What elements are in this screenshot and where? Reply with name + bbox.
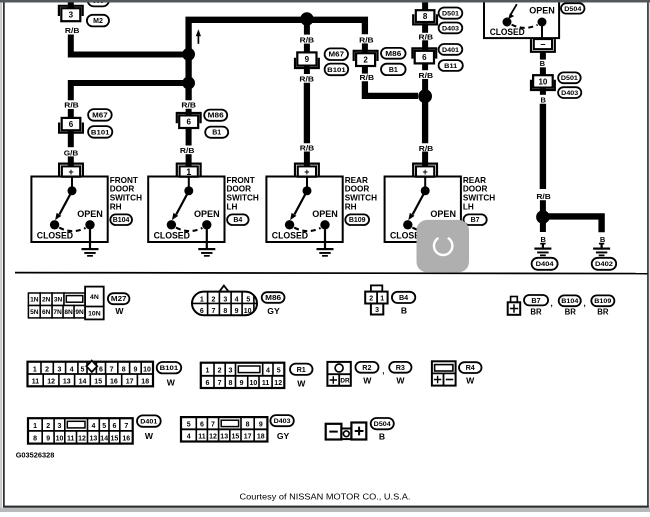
junction dot B2 (R/B bus): [182, 77, 195, 90]
switch 2 CLOSED contact dot: [167, 220, 176, 229]
svg-text:13: 13: [63, 379, 71, 386]
svg-text:−: −: [540, 40, 545, 50]
svg-text:2N: 2N: [42, 297, 51, 304]
wire: col-E stub above connector 8: [422, 2, 428, 10]
pinout oval R2: [355, 362, 378, 373]
pinout oval D401: [137, 415, 161, 426]
svg-text:6: 6: [112, 423, 116, 430]
ground termination D404: [534, 244, 551, 256]
wire: col-B connector to R/B label: [186, 128, 192, 146]
svg-text:10: 10: [143, 366, 151, 373]
door switch box 1: FRONT DOOR SWITCH RH: [31, 177, 107, 243]
svg-text:R/B: R/B: [181, 100, 196, 109]
svg-text:4: 4: [235, 296, 239, 303]
svg-text:D403: D403: [442, 25, 459, 32]
wire: col-F long drop to R/B label: [540, 104, 546, 189]
page frame: left border line: [3, 3, 5, 508]
svg-text:9: 9: [133, 366, 137, 373]
svg-text:14: 14: [79, 379, 87, 386]
svg-text:8: 8: [246, 422, 250, 429]
svg-text:R/B: R/B: [299, 75, 314, 84]
svg-text:17: 17: [126, 379, 134, 386]
pinout oval D403: [270, 415, 293, 426]
svg-text:5: 5: [80, 366, 84, 373]
svg-text:M86: M86: [208, 113, 224, 120]
svg-text:Courtesy of NISSAN MOTOR CO.,: Courtesy of NISSAN MOTOR CO., U.S.A.: [240, 492, 411, 502]
connector oval D501 (col E): [439, 8, 463, 19]
switch 1 CLOSED contact dot: [50, 220, 59, 229]
svg-text:13: 13: [220, 434, 228, 441]
switch 1 top contact feed: [71, 177, 73, 191]
back door switch box (top, cut off): [484, 0, 559, 38]
svg-text:CLOSED: CLOSED: [272, 231, 309, 241]
svg-text:15: 15: [111, 436, 119, 443]
back door switch OPEN contact lead: [541, 26, 543, 38]
svg-text:OPEN: OPEN: [312, 209, 338, 219]
svg-text:D504: D504: [374, 421, 391, 428]
switch 2 OPEN contact dot: [202, 220, 211, 229]
section separator line: [15, 273, 648, 274]
svg-text:M2: M2: [93, 18, 103, 25]
svg-text:4N: 4N: [90, 294, 99, 301]
svg-text:OPEN: OPEN: [194, 209, 220, 219]
svg-text:8: 8: [33, 436, 37, 443]
switch 4 connector oval B7: [464, 214, 487, 225]
svg-text:CLOSED: CLOSED: [490, 27, 525, 37]
svg-text:3: 3: [69, 11, 74, 20]
svg-text:D402: D402: [595, 261, 613, 268]
switch 4 common contact dot: [421, 186, 430, 195]
svg-text:9: 9: [259, 422, 263, 429]
svg-text:CLOSED: CLOSED: [37, 231, 74, 241]
wire: col-F B label to connector 10: [540, 67, 546, 75]
svg-text:B101: B101: [91, 129, 110, 136]
wire: col-A G/B label to terminal +: [68, 156, 74, 166]
svg-text:14: 14: [100, 436, 108, 443]
svg-text:R/B: R/B: [536, 192, 551, 201]
svg-text:B: B: [540, 59, 546, 68]
pinout connector D504 grid: [326, 423, 367, 440]
wire: col-E connector 6 to R/B: [422, 64, 428, 70]
svg-text:W: W: [363, 376, 372, 386]
switch 1 ground: [82, 229, 99, 257]
page frame: bottom border line: [3, 506, 649, 508]
svg-text:9: 9: [235, 308, 239, 315]
svg-text:D404: D404: [536, 261, 554, 268]
svg-text:1: 1: [33, 366, 37, 373]
svg-text:BR: BR: [530, 308, 542, 317]
svg-text:4: 4: [187, 434, 191, 441]
switch 4 ground: [435, 229, 452, 257]
pinout connector B4 grid: [365, 285, 387, 314]
wire: right branch B label to ground D402: [599, 243, 604, 245]
connector oval M86 (col D): [381, 48, 406, 59]
connector pin 8 (D501/D403): [413, 10, 437, 24]
switch 1 OPEN contact dot: [85, 220, 94, 229]
svg-text:GY: GY: [277, 431, 290, 441]
wire: col-A connector 6 to G/B label: [68, 131, 74, 147]
switch 1 common contact dot: [68, 186, 77, 195]
pinout oval B104: [559, 295, 581, 306]
connector pin 9 (M67/B101): [295, 52, 319, 68]
terminal - of back door switch: [531, 39, 555, 52]
svg-text:B7: B7: [471, 217, 480, 224]
connector oval M2: [87, 15, 109, 27]
svg-text:B7: B7: [531, 296, 540, 305]
svg-text:B4: B4: [233, 217, 242, 224]
loading spinner overlay: [417, 220, 470, 272]
wire: col-F junction to B label: [540, 222, 546, 232]
ground termination D402: [593, 244, 610, 256]
pinout connector R4 grid: [432, 361, 456, 385]
pinout connector R1 grid: [201, 363, 284, 388]
ground oval D404: [532, 258, 558, 270]
pinout oval R3: [389, 362, 411, 373]
svg-text:W: W: [167, 377, 176, 387]
switch 1 dashed travel arc: [59, 228, 85, 232]
wire: col-D connector 2 to R/B: [362, 66, 368, 74]
switch 2 ground: [198, 229, 215, 257]
wire: col-E R/B to junction dot: [422, 79, 428, 92]
svg-text:7: 7: [211, 422, 215, 429]
svg-text:11: 11: [32, 379, 40, 386]
wire: col-C long drop to R/B: [304, 83, 310, 143]
switch 4 top contact feed: [424, 177, 426, 191]
wire: col-D R/B to junction E: [365, 81, 418, 96]
switch 3 common contact dot: [303, 186, 312, 195]
pinout connector D403 grid: [181, 417, 267, 441]
wire: col-F R/B to junction dot: [540, 200, 546, 212]
pinout connector R2/R3 grid: [327, 362, 350, 386]
svg-text:D403: D403: [274, 418, 291, 425]
door switch box 3: REAR DOOR SWITCH RH: [266, 177, 342, 243]
svg-text:3: 3: [228, 368, 232, 375]
wire: col-F terminal - to B label: [540, 52, 546, 60]
svg-text:R/B: R/B: [419, 144, 434, 153]
svg-text:4: 4: [70, 366, 74, 373]
svg-text:B: B: [540, 96, 546, 105]
svg-text:W: W: [297, 379, 306, 389]
svg-text:1N: 1N: [30, 297, 39, 304]
svg-text:BR: BR: [597, 308, 609, 317]
switch 4 moving contact arm arrow: [408, 191, 425, 220]
switch 2 dashed travel arc: [176, 228, 202, 232]
partial oval label (cut off at top edge): [88, 0, 110, 6]
svg-text:4: 4: [266, 368, 270, 375]
svg-text:16: 16: [122, 436, 130, 443]
pinout oval R4: [459, 362, 482, 373]
svg-text:W: W: [396, 376, 405, 386]
svg-text:10: 10: [250, 380, 258, 387]
svg-text:4: 4: [91, 423, 95, 430]
svg-text:5N: 5N: [30, 309, 39, 316]
svg-text:OPEN: OPEN: [529, 5, 555, 15]
svg-text:11: 11: [262, 380, 270, 387]
connector oval M86 (col B): [204, 110, 227, 121]
svg-text:6: 6: [205, 380, 209, 387]
pinout connector B101 grid: [28, 361, 154, 387]
svg-text:R/B: R/B: [300, 36, 315, 45]
connector pin 10 (D501/D403): [531, 75, 555, 90]
svg-text:8: 8: [423, 12, 428, 21]
svg-text:2: 2: [369, 295, 373, 302]
svg-text:7N: 7N: [53, 309, 62, 316]
svg-text:7: 7: [218, 380, 222, 387]
svg-text:6N: 6N: [42, 309, 51, 316]
connector oval B101 (col C): [325, 64, 349, 76]
svg-text:B: B: [379, 431, 385, 441]
junction dot F (black ground bus): [536, 210, 550, 224]
svg-text:R1: R1: [297, 365, 306, 374]
svg-text:M86: M86: [265, 295, 281, 302]
svg-text:B4: B4: [399, 293, 408, 302]
svg-text:R3: R3: [396, 363, 405, 372]
connector pin 6 (M67/B101): [59, 118, 83, 133]
door switch box 2: FRONT DOOR SWITCH LH: [148, 177, 224, 243]
svg-text:W: W: [466, 376, 475, 386]
svg-text:G03526328: G03526328: [16, 451, 55, 460]
svg-text:R/B: R/B: [65, 26, 80, 35]
wire: top bus from col-B corner to col-D corner: [189, 20, 365, 101]
svg-text:OPEN: OPEN: [430, 209, 456, 219]
connector oval D504 (top right): [561, 3, 585, 13]
connector oval D403 (col F): [558, 87, 581, 98]
svg-text:1: 1: [200, 296, 204, 303]
pinout oval B101: [157, 362, 182, 373]
page frame: right border line: [647, 3, 649, 508]
switch 3 CLOSED contact dot: [285, 220, 294, 229]
svg-text:12: 12: [209, 434, 217, 441]
svg-text:16: 16: [110, 379, 118, 386]
svg-text:R/B: R/B: [359, 35, 374, 44]
svg-text:9: 9: [46, 436, 50, 443]
junction dot E (rear LH feed): [418, 89, 432, 103]
svg-text:2: 2: [218, 368, 222, 375]
svg-text:6: 6: [69, 120, 74, 129]
svg-text:7: 7: [110, 366, 114, 373]
wire: col-C dot to R/B label: [304, 20, 310, 35]
connector pin 6 (D401/B11): [412, 48, 436, 63]
svg-text:9: 9: [240, 380, 244, 387]
svg-text:10: 10: [244, 308, 252, 315]
svg-text:BR: BR: [565, 308, 577, 317]
svg-text:B11: B11: [444, 63, 457, 70]
connector pin 3 (M2): [59, 6, 83, 21]
connector oval D403 (col E): [439, 23, 463, 34]
ground oval D402: [592, 258, 617, 270]
svg-text:13: 13: [90, 436, 98, 443]
switch 3 connector oval B109: [345, 214, 369, 225]
svg-text:3N: 3N: [54, 297, 63, 304]
connector oval B1 (col D): [381, 64, 406, 75]
svg-text:10N: 10N: [88, 311, 101, 318]
svg-text:B101: B101: [160, 365, 179, 372]
terminal + front door switch RH: [59, 164, 83, 177]
svg-text:B104: B104: [561, 298, 578, 305]
svg-text:M67: M67: [92, 112, 108, 119]
svg-text:W: W: [145, 431, 154, 441]
svg-text:11: 11: [198, 434, 206, 441]
terminal + rear door switch LH: [413, 164, 437, 177]
svg-text:11: 11: [67, 436, 75, 443]
switch 1 connector oval B104: [110, 214, 132, 225]
svg-text:B104: B104: [113, 217, 130, 224]
svg-text:B: B: [600, 235, 606, 244]
svg-text:3: 3: [57, 366, 61, 373]
connector pin 2 (M86/B1): [354, 51, 378, 66]
wire: col-C connector 9 to R/B: [304, 66, 310, 74]
switch 3 moving contact arm arrow: [290, 191, 307, 220]
svg-text:3: 3: [58, 423, 62, 430]
svg-text:6: 6: [200, 422, 204, 429]
svg-text:6: 6: [186, 118, 191, 127]
page frame: left margin strip: [0, 3, 2, 509]
svg-text:R/B: R/B: [64, 100, 79, 109]
svg-text:OPEN: OPEN: [77, 209, 103, 219]
svg-text:DR: DR: [340, 378, 350, 385]
junction dot B1 (R/B bus): [182, 48, 195, 61]
svg-text:17: 17: [244, 434, 252, 441]
pinout connector D401 grid: [28, 418, 133, 443]
svg-text:10: 10: [56, 436, 64, 443]
svg-text:CLOSED: CLOSED: [154, 231, 191, 241]
svg-text:7: 7: [124, 423, 128, 430]
wire stub above connector 3: [68, 2, 74, 9]
pinout connector M27 grid: [28, 287, 103, 320]
switch 4 dashed travel arc: [412, 228, 438, 232]
svg-text:R/B: R/B: [180, 146, 195, 155]
svg-text:2: 2: [46, 423, 50, 430]
wire: col-E R/B to terminal +: [422, 152, 428, 167]
svg-text:D401: D401: [442, 47, 459, 54]
connector oval B101 (col A): [88, 126, 112, 138]
svg-text:B101: B101: [327, 67, 346, 74]
svg-text:1: 1: [33, 423, 37, 430]
switch 2 top contact feed: [188, 177, 190, 191]
connector oval M67 (col A): [88, 109, 112, 121]
svg-text:B: B: [540, 235, 546, 244]
svg-text:5: 5: [277, 368, 281, 375]
svg-text:R/B: R/B: [360, 73, 375, 82]
switch 3 top contact feed: [306, 177, 308, 191]
svg-text:2: 2: [363, 56, 368, 65]
svg-text:7: 7: [212, 308, 216, 315]
switch 2 moving contact arm arrow: [172, 191, 189, 220]
wire: col-F connector 10 to B label: [540, 89, 546, 95]
svg-text:6: 6: [422, 53, 427, 62]
svg-text:6: 6: [200, 308, 204, 315]
svg-text:8N: 8N: [64, 309, 73, 316]
wire: col-C R/B to terminal +: [304, 152, 310, 167]
svg-text:B1: B1: [212, 130, 221, 137]
pinout oval B109: [591, 295, 614, 306]
svg-text:1: 1: [205, 368, 209, 375]
junction dot C on top bus: [300, 12, 313, 25]
wire: col-A below R/B to connector 6: [68, 109, 74, 118]
switch 2 common contact dot: [184, 186, 193, 195]
svg-text:18: 18: [141, 379, 149, 386]
svg-text:R2: R2: [362, 363, 371, 372]
switch 4 CLOSED contact dot: [403, 220, 412, 229]
back door switch actuate arrow: [508, 4, 517, 19]
svg-text:D504: D504: [564, 6, 581, 13]
wire: branch dot B2 to left col-A (R/B): [71, 83, 185, 100]
svg-text:5: 5: [246, 296, 250, 303]
wire: col-F B label to ground D404: [540, 243, 545, 245]
switch 3 OPEN contact dot: [320, 220, 329, 229]
pinout oval M27: [108, 293, 129, 304]
svg-text:R/B: R/B: [300, 143, 315, 152]
svg-text:9N: 9N: [75, 309, 84, 316]
svg-text:R4: R4: [466, 363, 475, 372]
connector pin 6 (M86/B1): [177, 113, 201, 128]
connector oval M67 (col C): [325, 48, 348, 60]
svg-text:8: 8: [223, 308, 227, 315]
back door switch dashed travel arc: [512, 25, 538, 28]
svg-text:9: 9: [305, 55, 310, 64]
svg-text:5: 5: [187, 422, 191, 429]
pinout connector M86 stadium grid: [192, 286, 257, 316]
svg-text:M86: M86: [385, 51, 401, 58]
svg-text:12: 12: [78, 436, 86, 443]
wire: branch dot F to right drop (D402): [547, 216, 602, 232]
wire: col-E connector 8 to R/B: [422, 23, 428, 33]
pinout oval R1: [290, 364, 313, 375]
svg-text:GY: GY: [267, 306, 280, 316]
svg-text:R/B: R/B: [419, 32, 434, 41]
switch 4 OPEN contact dot: [439, 220, 448, 229]
svg-text:B1: B1: [389, 67, 398, 74]
switch 2 connector oval B4: [227, 214, 249, 225]
svg-text:12: 12: [47, 379, 55, 386]
svg-text:18: 18: [257, 434, 265, 441]
svg-text:B109: B109: [349, 217, 366, 224]
svg-text:M67: M67: [329, 52, 345, 59]
svg-text:D403: D403: [561, 90, 578, 97]
pinout oval B7: [524, 295, 548, 305]
connector oval D501 (col F): [558, 72, 581, 83]
page frame: top bar: [0, 0, 650, 3]
svg-text:12: 12: [274, 380, 282, 387]
svg-text:15: 15: [232, 434, 240, 441]
svg-text:6: 6: [99, 366, 103, 373]
svg-text:8: 8: [228, 380, 232, 387]
svg-text:3: 3: [375, 307, 379, 314]
svg-text:W: W: [115, 306, 124, 316]
svg-text:8: 8: [122, 366, 126, 373]
wire: col-B R/B label to terminal 1: [186, 154, 192, 166]
svg-text:M27: M27: [111, 296, 127, 303]
pinout oval D504: [371, 418, 394, 429]
svg-text:B109: B109: [594, 298, 611, 305]
svg-text:B: B: [401, 305, 407, 315]
connector oval B11 (col E): [439, 60, 463, 71]
svg-text:D501: D501: [442, 11, 459, 18]
wire: col-E R/B to connector 6: [422, 40, 428, 51]
svg-text:,: ,: [382, 366, 384, 375]
svg-text:D401: D401: [140, 419, 157, 426]
svg-text:15: 15: [94, 379, 102, 386]
switch 3 dashed travel arc: [294, 228, 320, 232]
svg-text:,: ,: [584, 299, 586, 308]
page frame: right margin strip: [649, 3, 650, 509]
terminal 1 front door switch LH: [177, 164, 201, 177]
svg-text:10: 10: [538, 77, 547, 86]
terminal + rear door switch RH: [295, 164, 319, 177]
svg-text:,: ,: [551, 299, 553, 308]
svg-text:2: 2: [212, 296, 216, 303]
svg-text:1: 1: [380, 295, 384, 302]
